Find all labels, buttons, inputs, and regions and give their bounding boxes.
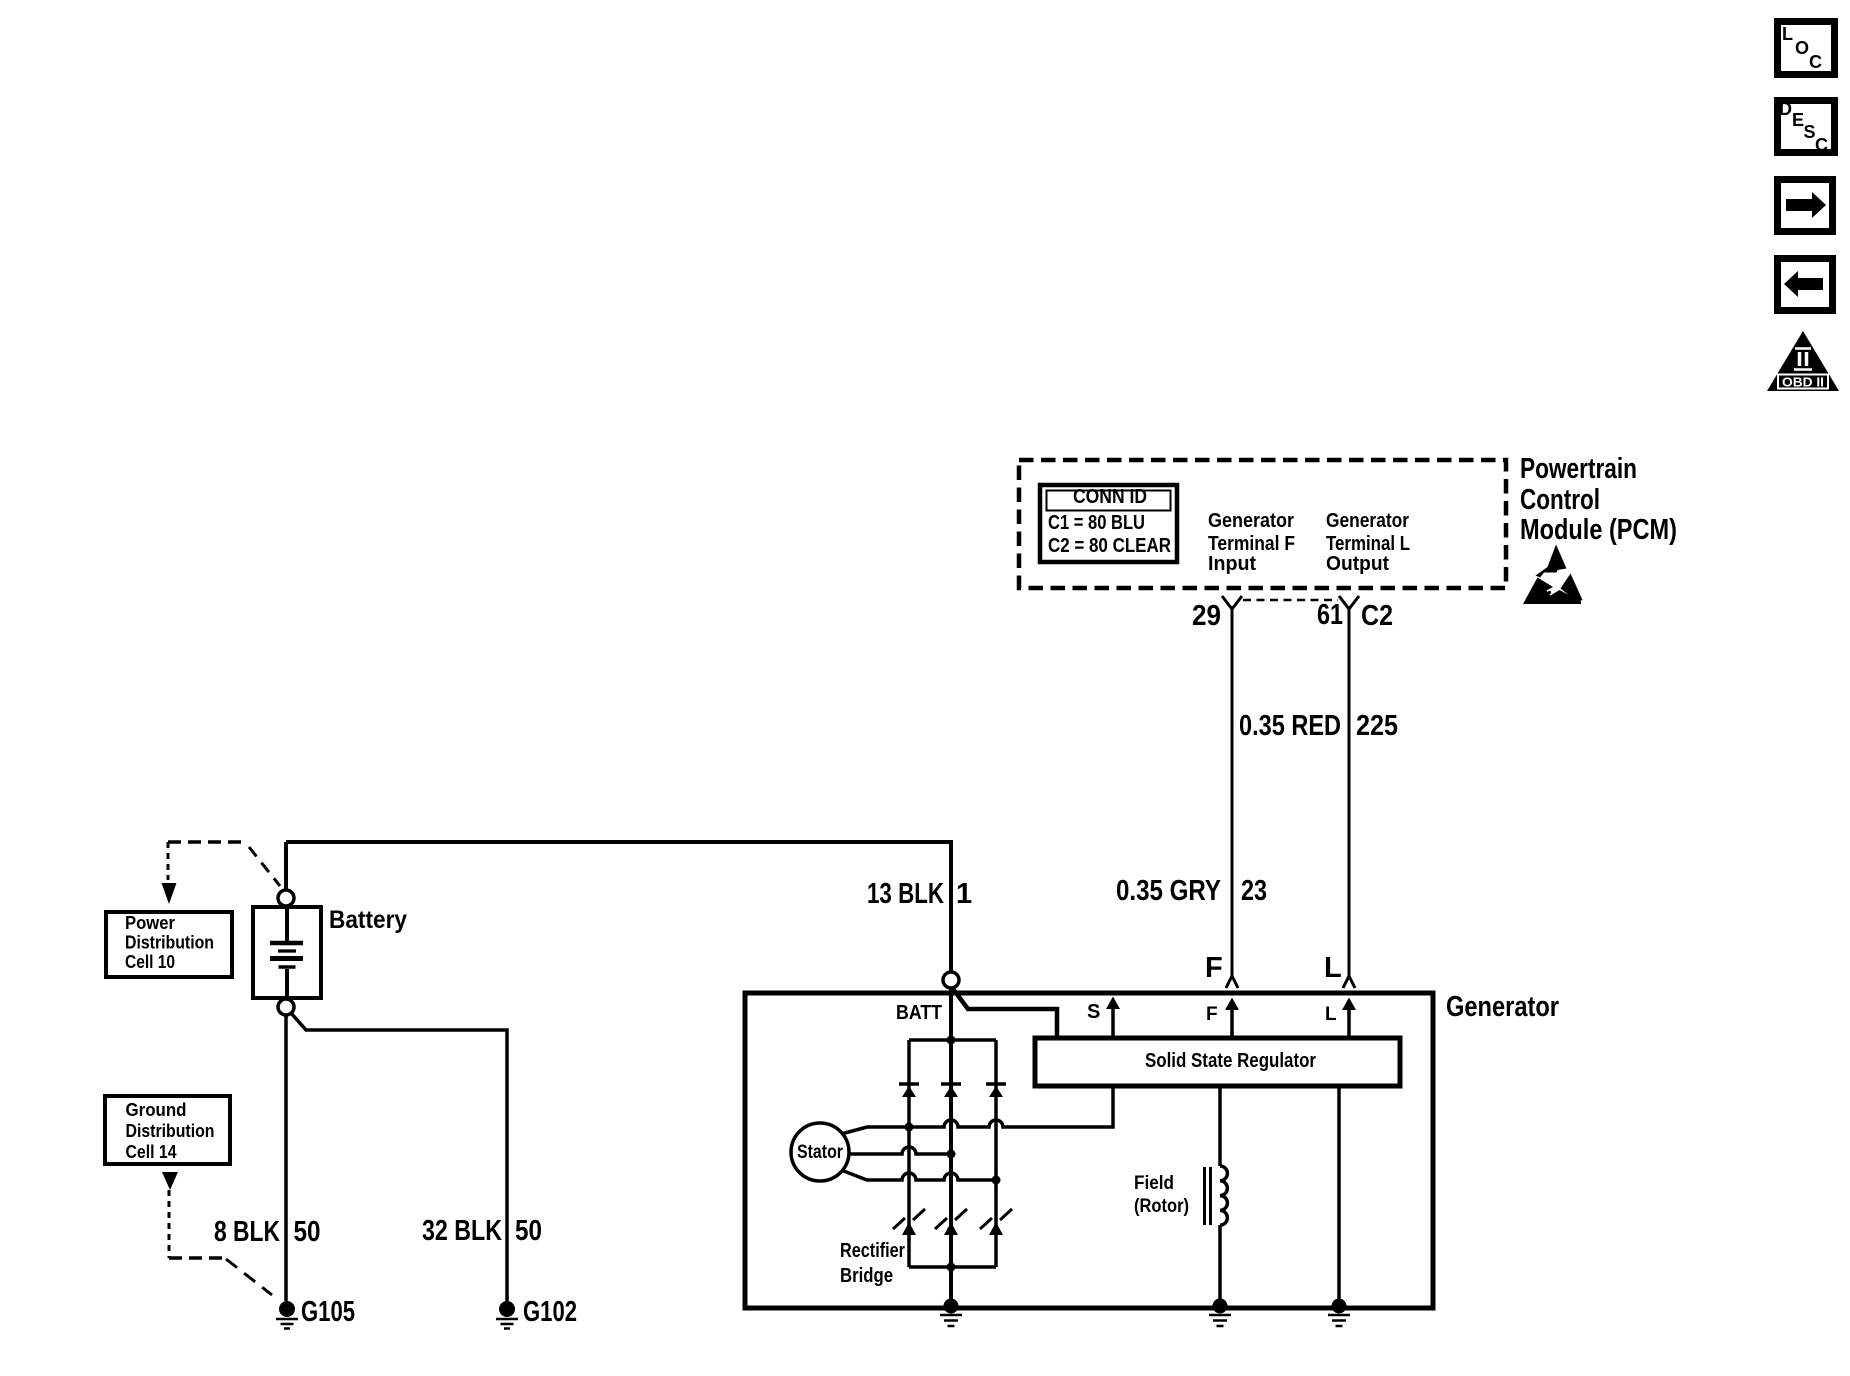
svg-text:Stator: Stator [797,1142,843,1163]
svg-text:32 BLK: 32 BLK [422,1215,502,1247]
svg-text:Ground: Ground [126,1100,187,1120]
svg-text:225: 225 [1356,710,1398,742]
svg-text:C2 = 80 CLEAR: C2 = 80 CLEAR [1048,535,1171,557]
svg-text:BATT: BATT [896,1002,942,1024]
svg-text:D: D [1779,99,1792,119]
svg-text:L: L [1782,24,1793,44]
svg-text:29: 29 [1192,600,1221,632]
svg-text:Bridge: Bridge [840,1265,893,1287]
svg-text:C: C [1815,135,1828,155]
svg-text:Rectifier: Rectifier [840,1240,905,1262]
svg-text:O: O [1795,38,1809,58]
svg-text:0.35 RED: 0.35 RED [1239,710,1341,742]
svg-text:Power: Power [125,913,175,933]
svg-text:1: 1 [956,878,972,910]
svg-text:S: S [1804,122,1816,142]
svg-text:Generator: Generator [1446,991,1559,1023]
svg-text:Solid State Regulator: Solid State Regulator [1145,1050,1316,1072]
svg-text:8 BLK: 8 BLK [214,1216,280,1248]
svg-text:Input: Input [1208,553,1256,575]
svg-text:F: F [1205,952,1223,984]
svg-text:Module (PCM): Module (PCM) [1520,514,1677,546]
svg-text:13 BLK: 13 BLK [867,878,944,910]
svg-text:C2: C2 [1361,600,1393,632]
svg-text:Terminal F: Terminal F [1208,533,1295,555]
svg-text:OBD II: OBD II [1782,376,1824,390]
svg-text:L: L [1325,1004,1337,1025]
svg-text:Terminal L: Terminal L [1326,533,1410,555]
svg-text:Generator: Generator [1326,510,1409,532]
svg-text:50: 50 [294,1216,321,1248]
svg-text:0.35 GRY: 0.35 GRY [1116,875,1221,907]
svg-text:Distribution: Distribution [126,1121,215,1141]
svg-text:Distribution: Distribution [125,933,214,953]
svg-text:G102: G102 [523,1296,577,1328]
svg-text:E: E [1792,110,1804,130]
svg-text:Powertrain: Powertrain [1520,453,1637,485]
svg-text:Control: Control [1520,484,1600,516]
svg-text:F: F [1206,1004,1218,1025]
svg-text:23: 23 [1241,875,1267,907]
svg-text:(Rotor): (Rotor) [1134,1196,1189,1217]
svg-text:S: S [1087,1001,1100,1023]
svg-text:Cell 10: Cell 10 [125,952,175,972]
svg-text:CONN ID: CONN ID [1073,486,1147,508]
svg-text:Field: Field [1134,1173,1174,1194]
svg-text:Generator: Generator [1208,510,1294,532]
svg-text:Output: Output [1326,553,1389,575]
svg-text:L: L [1324,952,1342,984]
svg-text:C1 = 80 BLU: C1 = 80 BLU [1048,512,1145,534]
svg-text:61: 61 [1317,599,1343,631]
svg-text:C: C [1809,52,1822,72]
svg-text:50: 50 [515,1215,542,1247]
svg-text:Cell 14: Cell 14 [126,1142,177,1162]
svg-text:Battery: Battery [329,906,407,934]
svg-text:G105: G105 [301,1296,355,1328]
